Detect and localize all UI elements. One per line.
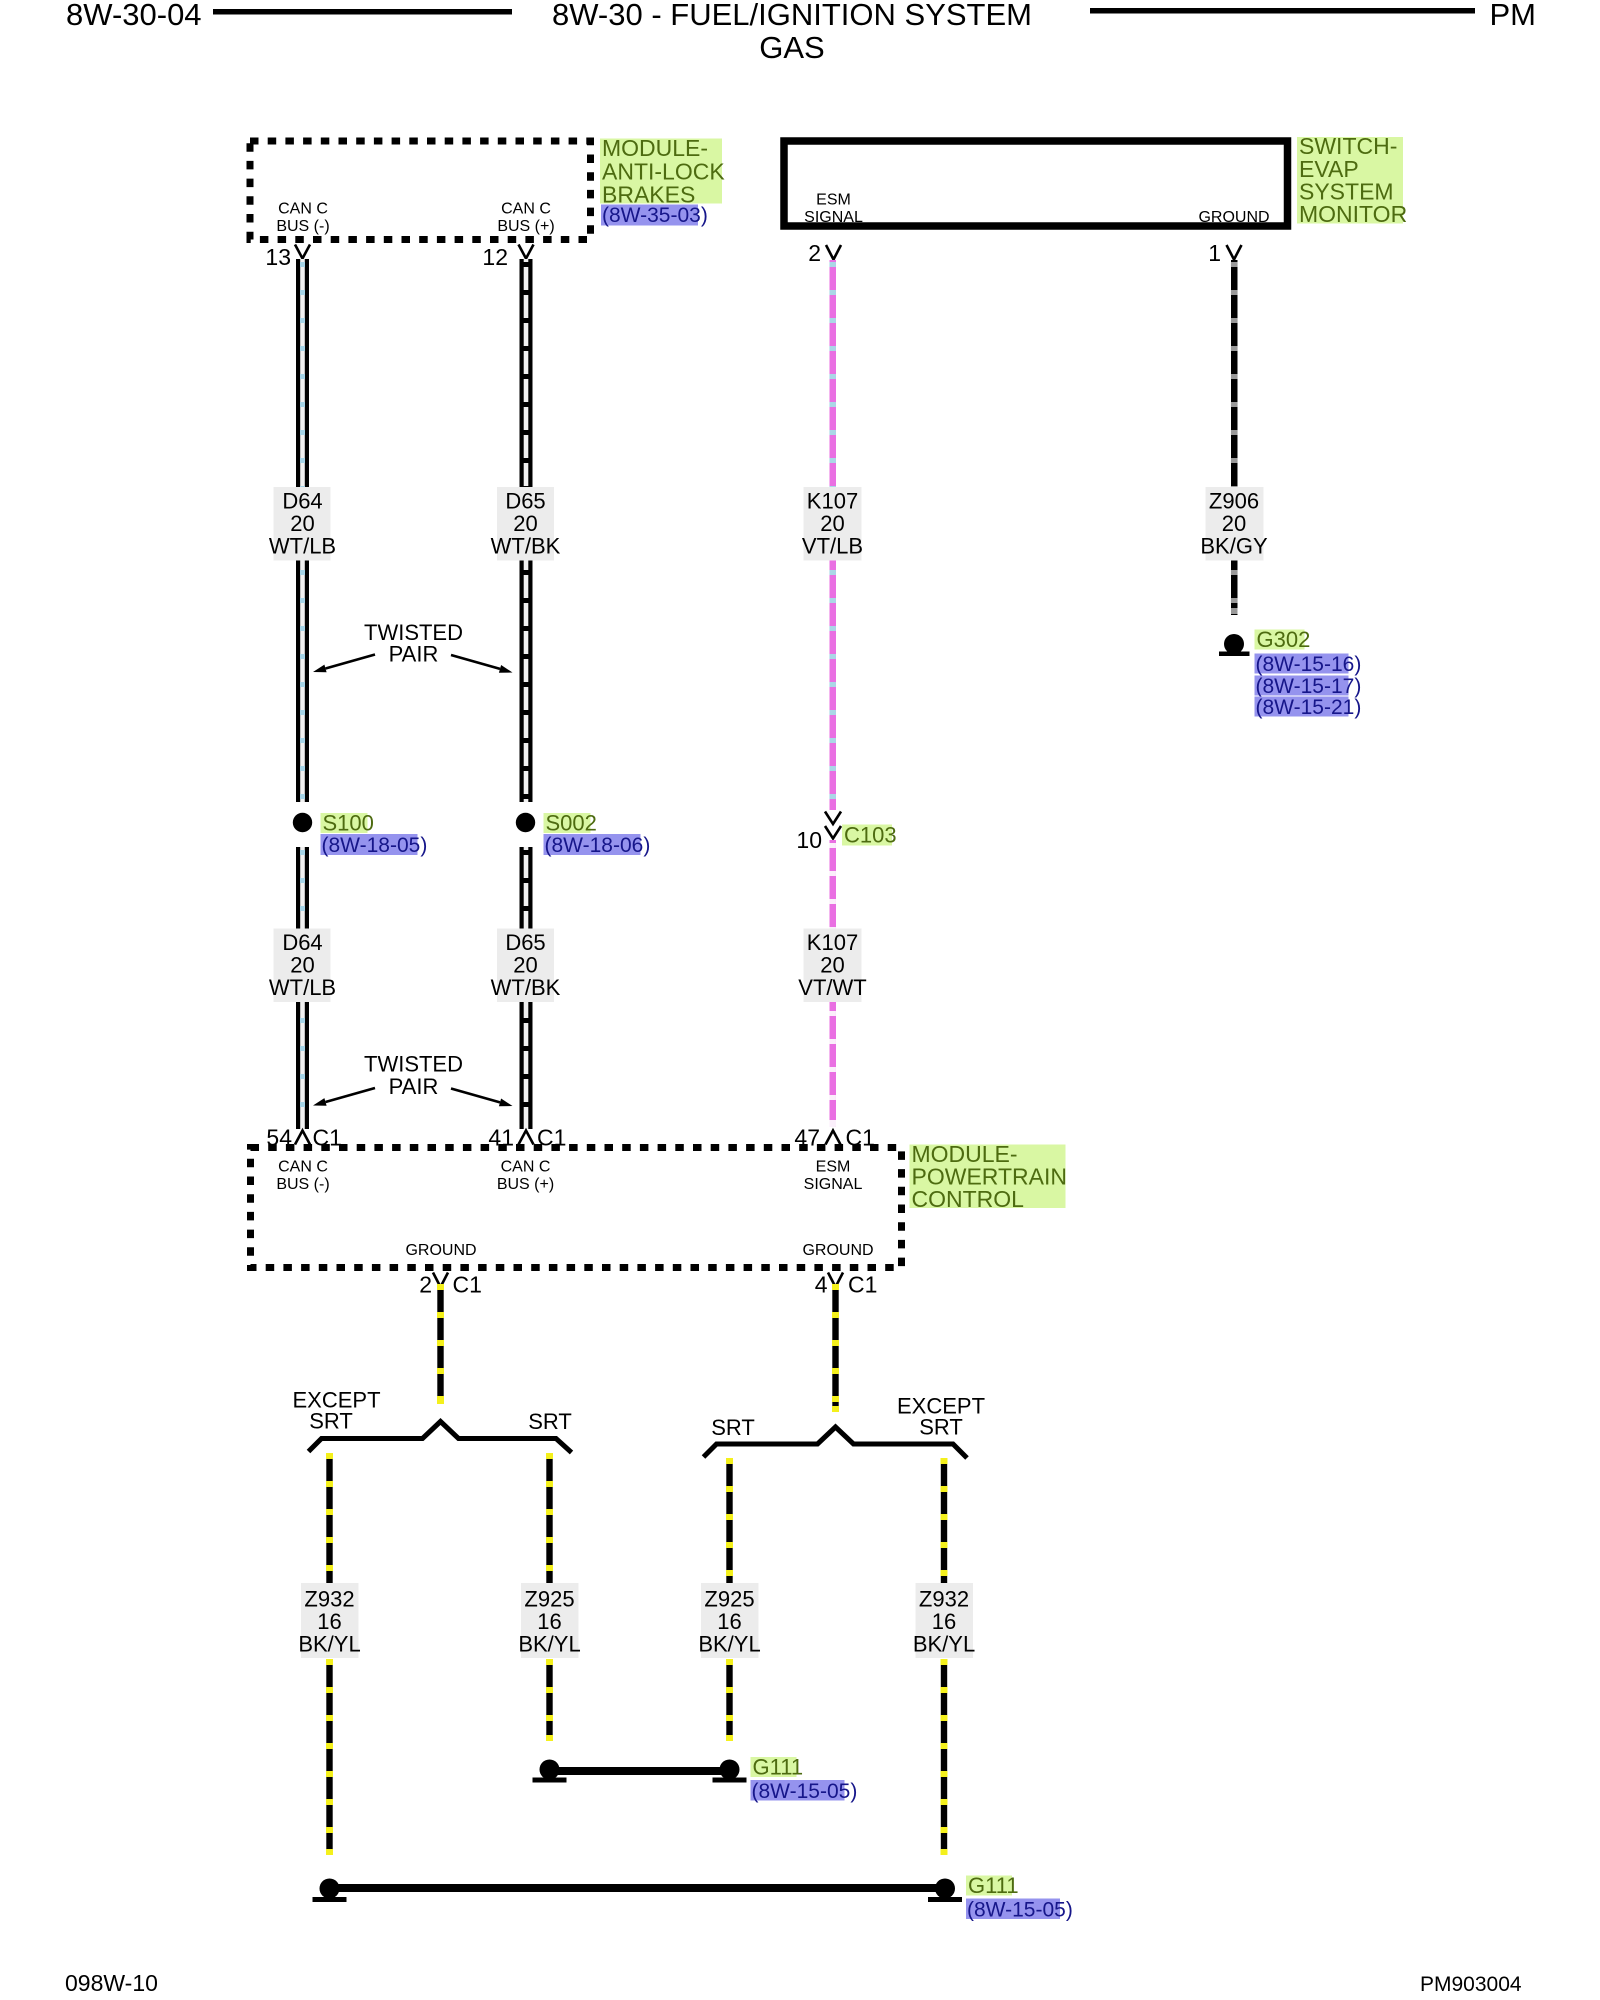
wire label Z932 (left) [298,1583,360,1658]
svg-text:Z925: Z925 [524,1587,574,1612]
svg-text:Z925: Z925 [704,1587,754,1612]
svg-text:41: 41 [488,1125,514,1151]
wire D65 upper (WT/BK twisted pair) [520,259,533,802]
svg-text:16: 16 [317,1609,341,1634]
svg-text:K107: K107 [807,489,858,514]
svg-text:C1: C1 [846,1125,875,1151]
wire label D64 lower [269,929,336,1003]
svg-text:GROUND: GROUND [802,1242,873,1259]
module anti-lock brakes box [250,141,591,240]
annotation MODULE-ANTI-LOCK BRAKES [600,139,722,204]
annotation G111 (lower) [966,1876,1012,1896]
svg-text:SRT: SRT [711,1415,755,1440]
annotation MODULE-POWERTRAIN CONTROL [910,1145,1066,1209]
svg-text:SRT: SRT [919,1415,963,1440]
svg-text:(8W-18-06): (8W-18-06) [545,834,651,857]
svg-text:BUS (-): BUS (-) [276,1176,329,1193]
wire Z925 left-pair right branch upper (BK/YL) [546,1453,552,1583]
svg-text:K107: K107 [807,930,858,955]
svg-text:(8W-15-21): (8W-15-21) [1256,696,1362,719]
svg-text:12: 12 [482,244,508,270]
annotation S100 [321,813,368,833]
wire Z906 (BK/GY) [1231,260,1238,615]
svg-text:(8W-15-16): (8W-15-16) [1256,653,1362,676]
svg-text:2: 2 [808,240,821,266]
svg-text:4: 4 [815,1272,828,1298]
svg-text:(8W-18-05): (8W-18-05) [322,834,428,857]
svg-text:C103: C103 [844,823,897,848]
svg-text:1: 1 [1208,240,1221,266]
annotation S002 [544,813,591,833]
svg-text:C1: C1 [313,1125,342,1151]
svg-text:S002: S002 [546,811,597,836]
svg-text:16: 16 [537,1609,561,1634]
twisted pair arrow lower-left [313,1088,375,1106]
svg-text:BK/YL: BK/YL [298,1632,360,1657]
svg-text:BUS (-): BUS (-) [276,218,329,235]
ground G302 [1219,634,1250,656]
svg-text:TWISTED: TWISTED [364,1052,463,1077]
svg-text:20: 20 [290,511,314,536]
svg-text:16: 16 [717,1609,741,1634]
wire ground PCM pin4 (BK/YL) [832,1284,839,1412]
svg-text:MODULE-: MODULE- [602,135,708,161]
svg-text:C1: C1 [453,1272,482,1298]
svg-text:G111: G111 [968,1873,1019,1898]
wire D64 lower (WT/LB twisted pair) [296,847,309,1129]
wire label Z925 (left) [518,1583,580,1658]
svg-text:C1: C1 [537,1125,566,1151]
svg-text:Z906: Z906 [1209,489,1259,514]
annotation (8W-15-05) (lower) [966,1899,1060,1920]
wire label K107 VT/LB [802,487,863,561]
svg-text:BUS (+): BUS (+) [497,1176,554,1193]
svg-text:CAN C: CAN C [501,1159,551,1176]
splice S002 [516,813,535,832]
wire label K107 VT/WT [798,929,866,1003]
wire label Z925 (right) [698,1583,760,1658]
svg-text:20: 20 [820,511,844,536]
svg-text:D65: D65 [505,489,545,514]
wire Z925 left-pair lower (BK/YL) [546,1659,553,1741]
wire Z925 right-pair lower (BK/YL) [726,1659,733,1741]
svg-text:GROUND: GROUND [1198,209,1269,226]
svg-text:(8W-15-17): (8W-15-17) [1256,675,1362,698]
svg-text:098W-10: 098W-10 [65,1970,158,1996]
module-powertrain control box [251,1148,902,1268]
header rule right [1090,8,1475,14]
annotation G111 (upper) [751,1757,797,1777]
svg-text:PAIR: PAIR [389,642,439,667]
wire label D64 upper [269,487,336,561]
svg-text:47: 47 [794,1125,820,1151]
splice S100 [293,813,312,832]
svg-text:ESM: ESM [816,192,851,209]
inline connector C103 [825,812,841,839]
twisted pair arrow lower-right [451,1089,513,1107]
svg-text:BK/YL: BK/YL [913,1632,975,1657]
svg-text:D64: D64 [282,489,322,514]
twisted pair arrow upper-left [313,655,375,673]
svg-text:PM: PM [1490,0,1537,32]
svg-text:16: 16 [932,1609,956,1634]
svg-text:VT/LB: VT/LB [802,534,863,559]
svg-text:ESM: ESM [816,1159,851,1176]
annotation G302 [1255,630,1305,650]
svg-text:SRT: SRT [528,1409,572,1434]
svg-text:SIGNAL: SIGNAL [804,1176,863,1193]
svg-text:PM903004: PM903004 [1420,1973,1522,1996]
svg-text:20: 20 [513,953,537,978]
wire K107 upper (VT/LB) [830,260,837,810]
switch-evap system monitor box [784,141,1288,226]
svg-text:CAN C: CAN C [278,1159,328,1176]
svg-text:G302: G302 [1257,627,1311,652]
svg-text:8W-30-04: 8W-30-04 [66,0,202,32]
svg-text:BK/YL: BK/YL [698,1632,760,1657]
svg-text:S100: S100 [323,811,374,836]
svg-text:10: 10 [796,827,822,853]
svg-text:SIGNAL: SIGNAL [804,209,863,226]
svg-text:(8W-35-03): (8W-35-03) [602,204,708,227]
svg-text:CAN C: CAN C [501,201,551,218]
annotation (8W-15-16) [1255,654,1349,674]
svg-text:Z932: Z932 [919,1587,969,1612]
annotation (8W-15-21) [1255,697,1349,717]
svg-text:VT/WT: VT/WT [798,975,866,1000]
annotation C103 [842,825,892,846]
wire label Z906 [1200,487,1268,561]
ground bar G111 (upper) [533,1760,747,1783]
annotation (8W-18-05) [321,834,418,855]
svg-text:20: 20 [513,511,537,536]
svg-text:13: 13 [265,244,291,270]
svg-text:GAS: GAS [759,30,824,65]
wire D64 upper (WT/LB twisted pair) [296,259,309,802]
svg-text:D64: D64 [282,930,322,955]
svg-text:20: 20 [290,953,314,978]
svg-text:D65: D65 [505,930,545,955]
wire label D65 upper [491,487,561,561]
svg-text:BUS (+): BUS (+) [497,218,554,235]
ground bar G111 (lower) [313,1879,963,1903]
svg-text:PAIR: PAIR [389,1074,439,1099]
svg-text:54: 54 [266,1125,292,1151]
svg-text:BK/GY: BK/GY [1200,534,1268,559]
wire Z932 left branch lower (BK/YL) [326,1659,333,1855]
svg-text:MONITOR: MONITOR [1299,201,1407,227]
header rule left [213,9,512,15]
option split brace (left) [309,1422,572,1453]
svg-text:WT/BK: WT/BK [491,534,561,559]
annotation (8W-15-17) [1255,676,1349,696]
svg-text:20: 20 [820,953,844,978]
svg-text:G111: G111 [753,1755,804,1780]
option split brace (right) [704,1427,968,1458]
wire Z932 left branch upper (BK/YL) [326,1453,332,1583]
svg-text:WT/LB: WT/LB [269,534,336,559]
svg-text:(8W-15-05): (8W-15-05) [967,1899,1073,1922]
wire K107 lower (VT/WT) [830,840,837,1127]
svg-text:BK/YL: BK/YL [518,1632,580,1657]
wire ground PCM pin2 (BK/YL) [437,1284,444,1404]
svg-text:SRT: SRT [309,1409,353,1434]
svg-text:Z932: Z932 [304,1587,354,1612]
wire label Z932 (right) [913,1583,975,1658]
svg-text:2: 2 [419,1272,432,1298]
svg-text:WT/BK: WT/BK [491,975,561,1000]
wire label D65 lower [491,929,561,1003]
svg-text:20: 20 [1222,511,1246,536]
annotation (8W-15-05) (upper) [751,1780,845,1801]
annotation SWITCH-EVAP SYSTEM MONITOR [1297,137,1403,224]
svg-text:CONTROL: CONTROL [912,1186,1025,1212]
wire Z932 right branch lower (BK/YL) [941,1659,948,1855]
svg-text:GROUND: GROUND [405,1242,476,1259]
svg-text:CAN C: CAN C [278,201,328,218]
svg-text:(8W-15-05): (8W-15-05) [752,1780,858,1803]
annotation (8W-35-03) [601,205,698,226]
svg-text:WT/LB: WT/LB [269,975,336,1000]
twisted pair arrow upper-right [451,655,513,673]
wire Z932 right branch upper (BK/YL) [941,1458,947,1583]
svg-text:C1: C1 [848,1272,877,1298]
wire Z925 right-pair left branch upper (BK/YL) [726,1458,732,1583]
annotation (8W-18-06) [544,834,641,855]
wire D65 lower (WT/BK twisted pair) [520,847,533,1129]
svg-text:8W-30 - FUEL/IGNITION SYSTEM: 8W-30 - FUEL/IGNITION SYSTEM [552,0,1032,32]
